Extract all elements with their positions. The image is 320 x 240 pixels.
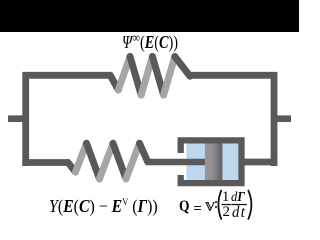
left terminal stub bbox=[8, 115, 26, 122]
denominator 2 bbox=[223, 205, 231, 220]
numerator dGamma bbox=[231, 191, 245, 205]
spring S1 segment d1 bbox=[110, 75, 118, 90]
spring S2 segment l2 bbox=[100, 143, 114, 179]
label: top spring energy bbox=[122, 33, 178, 51]
spring S2 segment l1 bbox=[76, 143, 87, 172]
dashpot piston rod wire bbox=[147, 159, 207, 165]
dashpot cylinder body bbox=[181, 140, 242, 183]
spring S1 segment l3 bbox=[164, 57, 175, 96]
wire: top-right horizontal + right vertical bbox=[190, 75, 275, 166]
spring S1 (top, elastic branch) bbox=[110, 57, 190, 96]
big left paren bbox=[218, 191, 221, 219]
double-struck V bbox=[205, 202, 216, 212]
spring S2 segment d2 bbox=[87, 143, 100, 179]
spring S1 segment d2 bbox=[130, 57, 141, 96]
fraction bar 1/2 bbox=[222, 204, 231, 205]
spring S2 segment l3 bbox=[126, 143, 140, 179]
spring S2 segment d4 bbox=[140, 143, 148, 162]
label: dissipation Q bbox=[179, 199, 189, 215]
wire: bottom-left horizontal bbox=[22, 159, 68, 166]
spring S1 segment l1 bbox=[118, 57, 130, 91]
colon bbox=[215, 201, 217, 203]
spring S1 segment d4 bbox=[175, 57, 190, 77]
numerator 1 bbox=[222, 190, 230, 205]
fraction bar dG/dt bbox=[231, 204, 247, 205]
dashpot piston plate bbox=[205, 143, 223, 180]
spring S2 segment d3 bbox=[113, 143, 126, 179]
label: bottom spring energy bbox=[49, 197, 158, 216]
denominator dt bbox=[232, 205, 246, 221]
spring S1 segment l2 bbox=[141, 57, 152, 96]
equals sign bbox=[194, 206, 202, 207]
wire: bottom-right horizontal (dashpot to right vertical) bbox=[241, 159, 277, 166]
wire: left vertical + top-left horizontal bbox=[26, 75, 111, 166]
dashpot fluid fill bbox=[186, 143, 238, 180]
big right paren bbox=[248, 191, 251, 219]
spring S1 segment d3 bbox=[152, 57, 163, 96]
top black letterbox bar bbox=[0, 0, 299, 32]
right terminal stub bbox=[274, 115, 291, 122]
spring S2 (bottom, viscous branch) bbox=[68, 143, 148, 179]
spring S2 segment d1 bbox=[68, 163, 76, 173]
